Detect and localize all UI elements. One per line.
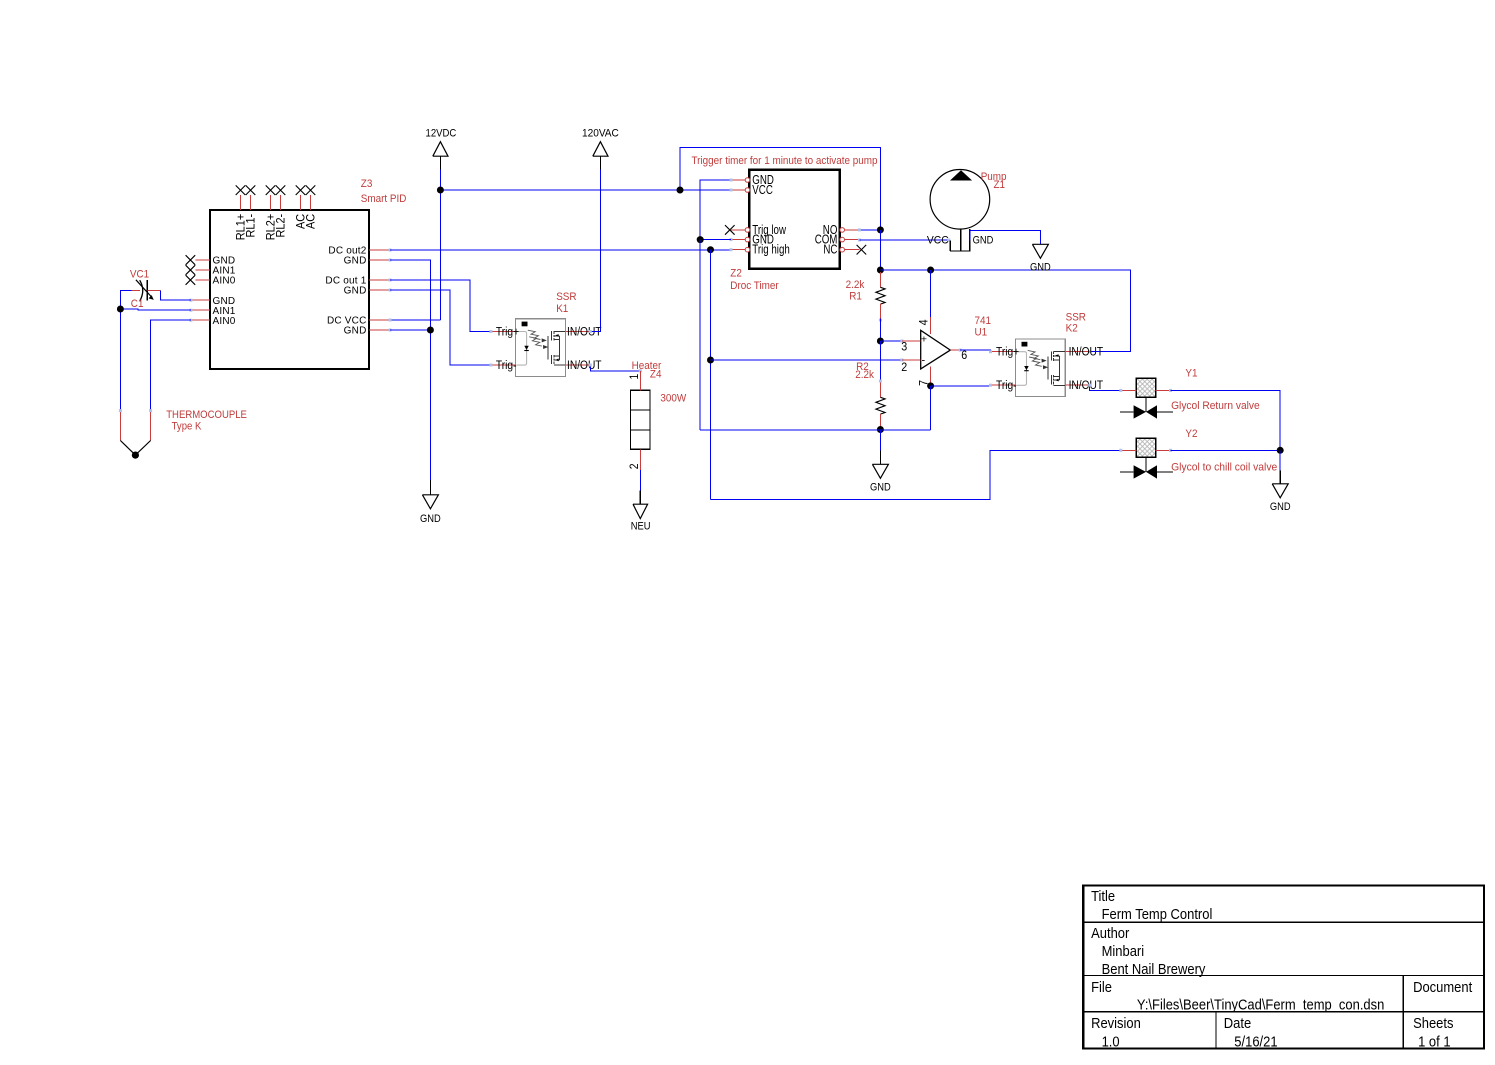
junction right bus: [1277, 447, 1284, 454]
svg-text:R1: R1: [849, 291, 862, 303]
no-connect X on NC: [857, 245, 867, 255]
no-connect X on AIN0: [186, 275, 196, 285]
svg-text:2.2k: 2.2k: [855, 369, 874, 381]
no-connect X on RL1-: [246, 185, 256, 195]
wire VC1 right to GND pin: [160, 290, 191, 300]
pin IN/OUT bottom of K1: [565, 359, 601, 372]
no-connect X on RL2-: [276, 185, 286, 195]
svg-text:Sheets: Sheets: [1413, 1014, 1453, 1031]
svg-text:VCC: VCC: [927, 234, 949, 246]
svg-text:-: -: [922, 354, 926, 366]
svg-text:3: 3: [901, 341, 907, 354]
svg-text:GND: GND: [1030, 262, 1051, 274]
junction AIN1/thermocouple: [117, 306, 124, 313]
svg-text:GND: GND: [870, 482, 891, 494]
pin IN/OUT bottom of K2: [1065, 379, 1103, 392]
pin GND (analog group) of Z3: [189, 296, 235, 307]
svg-text:AIN0: AIN0: [213, 276, 236, 287]
svg-text:12VDC: 12VDC: [425, 128, 456, 140]
wire 12VDC rail to Z2 VCC: [440, 189, 732, 191]
ground symbol right: [1270, 470, 1291, 513]
pin Trig low (left) of Z2: [731, 224, 787, 237]
pin 1 of heater: [628, 371, 641, 391]
svg-text:RL1-: RL1-: [245, 214, 257, 238]
wire op-amp pin4 branch: [930, 270, 932, 317]
svg-text:AIN0: AIN0: [213, 316, 236, 327]
pin AIN1 (top group) of Z3: [195, 266, 235, 277]
junction NO bus: [877, 226, 884, 233]
svg-text:Z4: Z4: [650, 369, 662, 381]
heater Z4 body: [630, 390, 650, 449]
ground symbol below Z3: [420, 480, 441, 525]
title block texts: [1091, 887, 1472, 1049]
svg-text:U1: U1: [975, 327, 988, 339]
wire pin7 to K2 Trig-: [931, 385, 991, 387]
pin 7 of U1: [918, 367, 931, 386]
junction op-amp V+ branch: [927, 267, 934, 274]
wire AIN0 down leg: [151, 320, 191, 410]
svg-text:2: 2: [901, 361, 907, 374]
svg-text:+: +: [921, 334, 927, 346]
pin 6 output of U1: [950, 349, 967, 363]
wire DC out2 GND down: [390, 260, 430, 480]
pin 2 of U1: [901, 360, 921, 374]
svg-text:GND: GND: [420, 513, 441, 525]
wire Y1 to right bus: [1171, 390, 1281, 450]
title block: [1083, 886, 1484, 1049]
svg-text:2.2k: 2.2k: [846, 280, 865, 292]
no-connect X on RL1+: [236, 185, 246, 195]
svg-text:Trig high: Trig high: [752, 244, 790, 257]
wire Z2 GND down to bottom rail: [699, 240, 701, 430]
svg-text:Y:\Files\Beer\TinyCad\Ferm_tem: Y:\Files\Beer\TinyCad\Ferm_temp_con.dsn: [1137, 996, 1384, 1013]
pin GND of Z3: [344, 286, 392, 297]
junction pin 7: [927, 382, 934, 389]
svg-text:Z2: Z2: [730, 268, 742, 280]
wire thermocouple left leg: [119, 309, 121, 411]
resistor R1 2.2k: [876, 272, 885, 322]
pin NO (right) of Z2: [823, 224, 860, 237]
svg-text:Trig+: Trig+: [496, 326, 519, 339]
pump Z1: [930, 170, 990, 251]
svg-text:SSR: SSR: [1066, 312, 1087, 324]
svg-text:Smart PID: Smart PID: [361, 194, 407, 206]
power symbol 120VAC: [582, 127, 619, 169]
wire 120VAC down to K1 IN/OUT: [590, 170, 600, 332]
junction non-inverting input: [877, 338, 884, 345]
svg-text:SSR: SSR: [556, 292, 577, 304]
wire DC out1 GND to K1 Trig-: [390, 290, 491, 365]
pin RL1- of Z3: [245, 195, 257, 237]
resistor R2 2.2k: [876, 380, 885, 430]
wire down to R2: [879, 341, 881, 382]
wire VC1 left to junction: [120, 290, 131, 309]
wire 12VDC branch over Z2 to NO: [680, 148, 880, 231]
svg-text:Bent Nail Brewery: Bent Nail Brewery: [1102, 960, 1206, 977]
svg-text:Document: Document: [1413, 978, 1472, 995]
svg-text:5/16/21: 5/16/21: [1234, 1032, 1277, 1049]
svg-text:Trig+: Trig+: [996, 346, 1019, 359]
no-connect X on AC: [306, 185, 316, 195]
wire to op-amp inverting input: [711, 359, 902, 361]
svg-text:GND: GND: [344, 286, 367, 297]
bottom rail junction: [877, 426, 884, 433]
pin AIN1 (analog group) of Z3: [189, 306, 235, 317]
pin IN/OUT top of K2: [1065, 346, 1103, 359]
pin GND (top group) of Z3: [195, 256, 235, 267]
junction inverting input branch: [707, 357, 714, 364]
pin 4 of U1: [918, 317, 931, 334]
wire DC out1 to K1 Trig+: [390, 280, 491, 332]
wire right bus to ground: [1279, 450, 1281, 470]
wire pin7 to rail: [930, 386, 932, 430]
pin Trig- of K2: [989, 379, 1017, 392]
power symbol 12VDC: [425, 128, 456, 170]
no-connect X on GND: [186, 255, 196, 265]
pin RL2- of Z3: [275, 195, 287, 237]
pin GND of Z3: [344, 256, 392, 267]
wire output to K2 Trig+: [960, 350, 990, 352]
svg-text:Author: Author: [1091, 924, 1130, 941]
pin AC of Z3: [295, 195, 307, 229]
svg-text:6: 6: [961, 349, 967, 362]
svg-text:Glycol to chill coil valve: Glycol to chill coil valve: [1171, 461, 1277, 473]
pin GND (left) of Z2: [731, 234, 774, 247]
wire Y2 to right bus: [1171, 449, 1281, 451]
pin AIN0 (top group) of Z3: [195, 276, 235, 287]
pin DC out2 of Z3: [328, 246, 391, 257]
wire bottom run to Y2: [711, 450, 1121, 499]
pin GND (left) of Z2: [731, 174, 774, 187]
ground symbol at pump: [1030, 244, 1051, 274]
pin Trig+ of K2: [989, 346, 1019, 359]
pin 2 of heater: [628, 449, 641, 470]
wire DC VCC GND stub: [390, 329, 430, 331]
wire DC VCC stub connect: [390, 319, 440, 321]
svg-text:Y2: Y2: [1185, 428, 1197, 440]
pin COM (right) of Z2: [815, 234, 860, 247]
ground symbol mid: [870, 451, 891, 494]
svg-text:300W: 300W: [660, 393, 686, 405]
svg-text:Z1: Z1: [994, 180, 1006, 192]
svg-text:Minbari: Minbari: [1102, 942, 1145, 959]
svg-text:IN/OUT: IN/OUT: [567, 359, 602, 372]
svg-text:NEU: NEU: [631, 521, 651, 533]
wire heater to NEU: [639, 470, 641, 490]
pin NC (right) of Z2: [823, 244, 859, 257]
svg-text:K1: K1: [556, 304, 568, 316]
svg-text:Date: Date: [1224, 1014, 1252, 1031]
svg-text:VC1: VC1: [130, 269, 149, 281]
valve Y2: [1119, 438, 1173, 479]
svg-text:GND: GND: [344, 326, 367, 337]
wire junction to pin 3: [880, 340, 902, 342]
svg-text:1: 1: [628, 374, 641, 380]
wire COM to pump VCC: [859, 239, 950, 241]
wire Z2 GND pin join: [700, 239, 731, 241]
wire K2 out to Y1: [1090, 385, 1121, 390]
SSR K1 body: [516, 319, 566, 377]
svg-text:File: File: [1091, 978, 1112, 995]
pin DC out 1 of Z3: [325, 276, 391, 287]
power symbol NEU: [631, 490, 651, 532]
junction 12VDC branch: [677, 187, 684, 194]
pin IN/OUT top of K1: [565, 326, 601, 339]
pin AIN0 (analog group) of Z3: [189, 316, 235, 327]
svg-text:C1: C1: [131, 298, 144, 310]
svg-text:Trigger timer for 1 minute to: Trigger timer for 1 minute to activate p…: [692, 156, 878, 168]
junction GND collector: [427, 327, 434, 334]
junction at 12VDC symbol: [437, 187, 444, 194]
svg-text:1.0: 1.0: [1102, 1032, 1120, 1049]
no-connect X on AIN1: [186, 265, 196, 275]
svg-text:4: 4: [918, 319, 931, 325]
svg-text:1 of 1: 1 of 1: [1418, 1032, 1451, 1049]
svg-text:Type K: Type K: [172, 421, 202, 433]
wire NO to vertical bus: [859, 229, 880, 231]
junction Trig high: [707, 246, 714, 253]
svg-text:Trig-: Trig-: [996, 379, 1017, 392]
pin GND of Z3: [344, 326, 392, 337]
capacitor VC1: [131, 280, 160, 301]
wire DC out2 to Trig high rail: [390, 249, 733, 251]
svg-text:Z3: Z3: [361, 179, 373, 191]
pin AC of Z3: [305, 195, 317, 229]
wire NO bus down to R1: [879, 230, 881, 272]
svg-text:RL2-: RL2-: [275, 214, 287, 238]
pin VCC (left) of Z2: [731, 184, 773, 197]
op-amp/IC Z3 Smart PID body: [210, 210, 369, 369]
svg-text:AC: AC: [305, 214, 317, 229]
svg-text:120VAC: 120VAC: [582, 127, 619, 139]
pin DC VCC of Z3: [327, 316, 392, 327]
no-connect X on Trig low: [725, 225, 735, 235]
svg-text:THERMOCOUPLE: THERMOCOUPLE: [166, 410, 247, 422]
svg-text:GND: GND: [344, 256, 367, 267]
SSR K2 body: [1016, 339, 1066, 397]
wire rail to ground: [879, 430, 881, 451]
wire VCC bus to op-amp and K2: [880, 270, 1130, 352]
wire Trig high down: [710, 250, 712, 500]
no-connect X on RL2+: [266, 185, 276, 195]
IC Z2 Droc Timer body: [749, 170, 839, 269]
wire bottom rail: [700, 429, 930, 431]
pin Trig- of K1: [489, 359, 516, 372]
svg-text:741: 741: [975, 315, 992, 327]
wire R1 to pin3 junction: [879, 319, 881, 341]
wire 12VDC vertical to DC VCC: [439, 170, 441, 320]
svg-text:GND: GND: [973, 235, 994, 247]
svg-text:IN/OUT: IN/OUT: [1069, 346, 1104, 359]
wire pump GND to ground: [970, 231, 1041, 245]
no-connect X on AC: [296, 185, 306, 195]
pin Trig high (left) of Z2: [731, 244, 790, 257]
thermocouple TC1 leads: [119, 409, 152, 459]
valve Y1: [1119, 378, 1173, 419]
svg-text:NC: NC: [823, 244, 837, 257]
svg-text:Revision: Revision: [1091, 1014, 1141, 1031]
svg-text:Trig-: Trig-: [496, 359, 517, 372]
svg-text:Y1: Y1: [1185, 368, 1197, 380]
svg-text:VCC: VCC: [752, 184, 773, 197]
pin Trig+ of K1: [489, 326, 519, 339]
svg-text:GND: GND: [1270, 501, 1291, 513]
svg-text:Title: Title: [1091, 887, 1115, 904]
svg-text:K2: K2: [1066, 323, 1078, 335]
wire Z2 top GND to trig GND: [700, 180, 731, 240]
pin RL2+ of Z3: [265, 195, 277, 240]
wire K1 IN/OUT to heater: [590, 365, 640, 371]
op-amp U1 741: [921, 330, 951, 369]
junction R1 top: [877, 267, 884, 274]
svg-text:IN/OUT: IN/OUT: [567, 326, 602, 339]
pin 3 of U1: [901, 341, 921, 354]
svg-text:Glycol Return valve: Glycol Return valve: [1171, 400, 1260, 412]
pin RL1+ of Z3: [235, 195, 247, 240]
svg-text:Droc Timer: Droc Timer: [730, 281, 779, 293]
wire AIN1 from junction: [120, 309, 190, 310]
junction Z2 GND: [697, 236, 704, 243]
svg-text:2: 2: [628, 463, 641, 469]
svg-text:Ferm Temp Control: Ferm Temp Control: [1102, 905, 1213, 922]
